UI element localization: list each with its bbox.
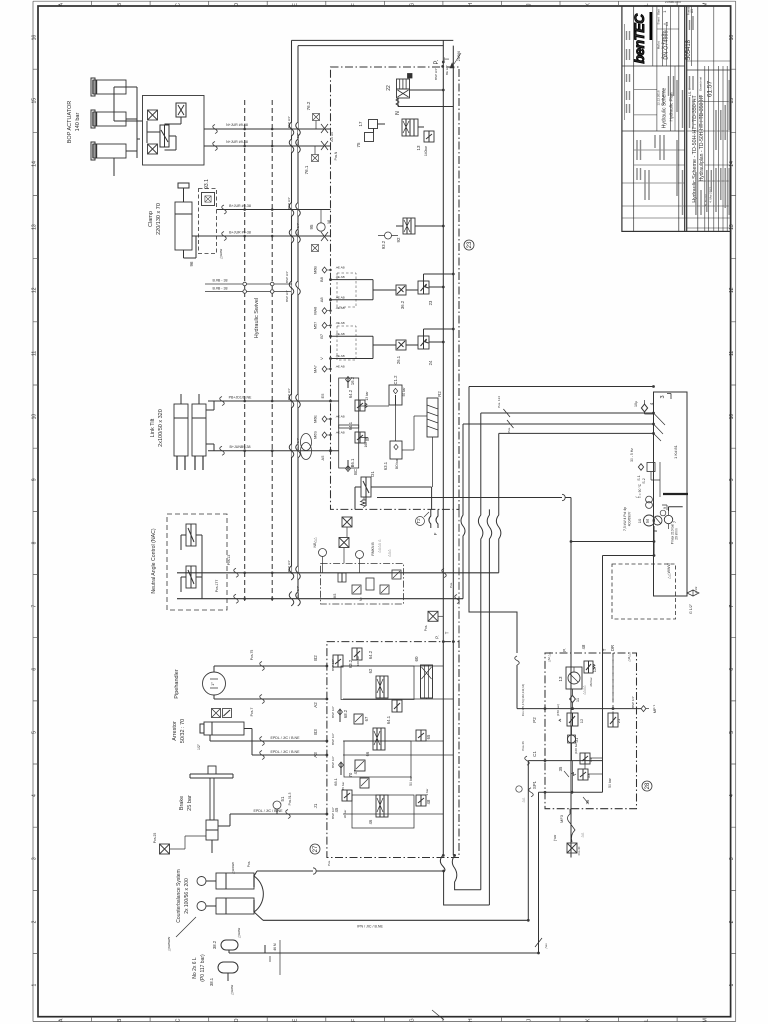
wire P2 line [517, 708, 641, 710]
P port dot and T arrow at box top [441, 65, 444, 68]
svg-text:76.2: 76.2 [306, 101, 311, 110]
svg-text:MF3: MF3 [559, 814, 564, 823]
clamp pilot valve 93.1 dashed box [199, 189, 217, 254]
svg-text:Hydraulic Swivel: Hydraulic Swivel [254, 298, 260, 338]
svg-text:16.2: 16.2 [350, 376, 355, 385]
svg-text:64.1: 64.1 [386, 715, 391, 724]
svg-text:50/32 : 70: 50/32 : 70 [180, 719, 186, 743]
svg-text:BSP 3/4": BSP 3/4" [287, 197, 291, 209]
svg-text:66: 66 [365, 751, 370, 756]
svg-text:△△: △△ [521, 797, 525, 802]
svg-text:D: D [234, 1018, 240, 1022]
accumulator 38.1 [218, 962, 238, 973]
svg-text:9: 9 [729, 478, 735, 481]
svg-text:BOP ACTUATOR: BOP ACTUATOR [67, 101, 73, 144]
wire main bus vertical P right [442, 40, 444, 855]
svg-text:A8: A8 [319, 297, 324, 303]
svg-text:B7: B7 [319, 333, 324, 339]
check stack R2 [427, 398, 438, 437]
valve 21 dashed branch [608, 713, 618, 727]
wire C1 line [528, 760, 602, 762]
svg-text:Pos.13: Pos.13 [227, 555, 231, 566]
counterbalance connection arc [254, 876, 263, 912]
pin 16.2 [347, 378, 349, 388]
svg-text:M6S: M6S [314, 431, 318, 439]
svg-text:61.57: 61.57 [707, 80, 714, 97]
dash-dot connector right edge [458, 509, 460, 641]
svg-text:8: 8 [32, 541, 38, 544]
svg-text:benTEC: benTEC [631, 13, 647, 64]
svg-text:25/666: 25/666 [457, 51, 461, 61]
svg-text:Pos.: Pos. [424, 625, 428, 631]
lower box row2 valves [338, 709, 343, 715]
svg-text:Pos.: Pos. [327, 860, 331, 866]
svg-text:M: M [645, 519, 650, 523]
svg-text:BSP 3/4": BSP 3/4" [296, 586, 300, 598]
svg-text:160 bar: 160 bar [364, 436, 368, 448]
svg-text:13: 13 [558, 676, 563, 682]
wire T return top horizontal [298, 45, 443, 47]
svg-text:65: 65 [426, 734, 431, 739]
svg-text:9: 9 [663, 507, 667, 509]
NAC cluster dash-dot box [321, 563, 404, 604]
svg-text:2M bar: 2M bar [589, 677, 593, 686]
electric motor 10 [644, 515, 655, 526]
svg-text:[A]: [A] [327, 220, 331, 224]
svg-text:A2: A2 [313, 702, 318, 708]
svg-text:63.2: 63.2 [348, 659, 353, 668]
svg-text:12: 12 [579, 718, 584, 723]
wire pipehandler line 2 [214, 695, 327, 699]
accumulator label pointer [176, 917, 196, 937]
svg-text:BSP 3/4": BSP 3/4" [434, 68, 438, 80]
valve 34 [580, 753, 590, 764]
NAC cluster internals [338, 573, 346, 582]
tank breather 4 [641, 404, 647, 412]
ruler ticks and grid numbers right edge [731, 69, 736, 953]
svg-text:3: 3 [729, 857, 735, 860]
svg-text:ZUNMFCOU: ZUNMFCOU [665, 0, 681, 4]
svg-text:30 - 5 Hz: 30 - 5 Hz [630, 448, 634, 462]
svg-text:Arrestor: Arrestor [172, 721, 178, 741]
svg-text:M3: M3 [333, 594, 337, 599]
svg-text:C: C [175, 3, 181, 7]
svg-text:DR: DR [610, 645, 615, 651]
svg-text:17: 17 [358, 121, 363, 127]
svg-text:△△: △△ [580, 832, 584, 837]
svg-text:H: H [468, 1018, 474, 1022]
svg-text:400/690V: 400/690V [628, 511, 632, 526]
svg-text:V: V [319, 357, 324, 360]
svg-text:36: 36 [585, 799, 590, 804]
svg-text:10: 10 [637, 518, 642, 523]
svg-text:BSP 1/2": BSP 1/2" [331, 756, 335, 768]
valve 92 directional [403, 218, 415, 234]
svg-text:ø 1/2: ø 1/2 [694, 586, 698, 593]
wire arrestor line 1 [210, 735, 327, 741]
NAC valve symbols inside [186, 524, 196, 546]
staircase return bundle wires [452, 46, 454, 856]
svg-text:50 bar: 50 bar [409, 775, 413, 785]
valve 25 relief [418, 281, 429, 294]
svg-text:C: C [175, 1018, 181, 1022]
svg-text:6: 6 [32, 668, 38, 671]
svg-text:1/2": 1/2" [197, 743, 201, 750]
relief 64.1 [355, 432, 365, 443]
valve 64.1 lower [392, 700, 402, 712]
svg-text:23: 23 [467, 241, 473, 248]
valve 22 pressure reducing [397, 79, 410, 89]
arrestor pilot squares [212, 709, 221, 718]
dashed electric box [612, 564, 676, 619]
svg-text:90 bar: 90 bar [402, 387, 406, 397]
svg-text:68.1: 68.1 [333, 777, 338, 786]
svg-text:Zechn.-Nr. Draw.-No.: Zechn.-Nr. Draw.-No. [661, 31, 665, 58]
svg-text:Link Tilt: Link Tilt [150, 418, 156, 437]
svg-text:7: 7 [729, 604, 735, 607]
cluster connector wires [365, 405, 396, 441]
svg-text:M: M [702, 1018, 708, 1022]
svg-text:96: 96 [189, 261, 194, 267]
NAC solenoid squares above [339, 538, 349, 548]
svg-text:MA8: MA8 [314, 307, 318, 315]
svg-text:48: 48 [426, 799, 431, 804]
svg-text:M57: M57 [314, 322, 318, 329]
wire P supply top horizontal [292, 39, 454, 41]
svg-text:75: 75 [356, 142, 361, 148]
svg-text:ƒww: ƒww [553, 834, 557, 841]
svg-text:7,5 kW 4 Pol 4p: 7,5 kW 4 Pol 4p [623, 507, 627, 531]
svg-text:1: 1 [729, 984, 735, 987]
hose connector SP feed [469, 387, 517, 654]
BOP actuator cylinder group [93, 80, 126, 94]
svg-text:T: T [445, 57, 451, 61]
wire main bus vertical T left [297, 46, 299, 599]
valves 34 33 connect lines [584, 764, 586, 769]
solenoid boxes 76.2 76.1 [313, 114, 320, 121]
wire tank return lines [463, 413, 654, 433]
svg-text:46: 46 [368, 819, 373, 824]
svg-text:22: 22 [386, 85, 392, 91]
svg-text:140 bar: 140 bar [75, 113, 81, 132]
svg-text:12: 12 [32, 287, 38, 293]
svg-text:T: T [602, 648, 607, 651]
svg-text:BSP 3/4": BSP 3/4" [285, 271, 289, 283]
svg-text:B2: B2 [313, 655, 318, 661]
wire counterbalance lower line [254, 912, 263, 920]
svg-text:12: 12 [592, 667, 597, 672]
svg-text:11: 11 [32, 351, 38, 356]
svg-text:E5: E5 [320, 393, 325, 399]
circled 27 [310, 844, 320, 854]
svg-text:Clamp: Clamp [148, 211, 154, 227]
wire NAC line 2 [177, 598, 463, 600]
svg-text:SP1: SP1 [532, 780, 537, 789]
svg-text:50 bar: 50 bar [608, 777, 612, 787]
svg-text:Pos. 124: Pos. 124 [497, 396, 501, 408]
wire NAC return riser 2 [461, 424, 465, 599]
svg-text:7: 7 [32, 604, 38, 607]
svg-text:C1.2: C1.2 [393, 375, 398, 385]
svg-text:B8: B8 [319, 276, 324, 282]
wire arrestor line 2 [252, 729, 327, 756]
svg-text:8: 8 [729, 541, 735, 544]
svg-text:No 2x 6 L: No 2x 6 L [192, 957, 198, 979]
svg-text:Pos.170,173,(166,142,14): Pos.170,173,(166,142,14) [521, 684, 525, 716]
svg-text:PB+JD1/D.NE: PB+JD1/D.NE [229, 396, 252, 400]
lower box row3 valves [342, 790, 352, 801]
svg-text:MA7: MA7 [314, 365, 318, 373]
svg-text:R2: R2 [437, 391, 442, 397]
ruler ticks and grid letters top edge [92, 1, 678, 6]
hydraulic swivel dashed boundary left [244, 100, 246, 602]
pump suction and discharge lines [653, 526, 655, 542]
svg-text:BC: BC [353, 469, 358, 475]
svg-text:ƒ: ƒ [635, 496, 639, 498]
svg-text:M6B: M6B [314, 266, 318, 274]
dashed vertical in pump box [612, 653, 614, 727]
pump 8 [653, 516, 662, 525]
svg-text:92: 92 [396, 237, 401, 243]
svg-text:.#E AB: .#E AB [335, 415, 344, 419]
svg-text:Gezeichnet: Gezeichnet [699, 77, 703, 91]
svg-text:B6.1: B6.1 [350, 458, 355, 467]
BOP valve internals [148, 110, 158, 120]
spare swivel lines [205, 284, 292, 292]
svg-text:67: 67 [364, 716, 369, 721]
svg-text:48: 48 [581, 644, 586, 649]
svg-text:B3: B3 [313, 729, 318, 735]
circled 23 [464, 240, 474, 250]
svg-text:Pos.: Pos. [449, 582, 453, 588]
svg-text:A: A [58, 2, 64, 6]
wire accumulator line [264, 945, 266, 953]
svg-text:140bar: 140bar [424, 145, 428, 156]
relief 48 [416, 795, 426, 806]
svg-text:Hydraulic Plan: Hydraulic Plan [669, 92, 674, 122]
svg-text:BSP 3/4": BSP 3/4" [296, 438, 300, 450]
svg-text:Pos.75: Pos.75 [250, 650, 254, 661]
svg-text:93.2: 93.2 [381, 240, 386, 249]
tank internal pipes [654, 413, 666, 441]
svg-text:IPN / JIC / B.NE: IPN / JIC / B.NE [357, 925, 383, 929]
valve 26.1 throttle-check [396, 340, 406, 350]
node P top [442, 61, 445, 64]
suction strainer S1 S2 [638, 464, 643, 471]
lower box row1 valves [333, 655, 343, 667]
hose breaks on staircase tops [442, 569, 447, 578]
svg-text:T: T [445, 631, 450, 634]
svg-text:Pos.N: Pos.N [334, 151, 338, 160]
svg-text:H: H [468, 3, 474, 7]
gauge 9 [660, 510, 666, 516]
svg-text:N+JUR #9-38: N+JUR #9-38 [226, 140, 248, 144]
hose coil loop on A5 line [301, 434, 312, 451]
svg-text:15: 15 [32, 98, 38, 104]
svg-text:Pos.177: Pos.177 [215, 580, 219, 593]
valve 46 directional [376, 795, 388, 817]
link tilt cylinders [174, 404, 188, 456]
svg-text:△△WWW: △△WWW [667, 563, 671, 579]
svg-text:2x 100/56 x 200: 2x 100/56 x 200 [184, 878, 190, 914]
wire bottom bundle horizontals [263, 919, 528, 921]
relief 13 [424, 131, 434, 142]
valve 24 relief [418, 336, 429, 349]
svg-text:EPDL / JIC / B.NE: EPDL / JIC / B.NE [253, 809, 283, 813]
svg-text:Blatt: Blatt [657, 9, 661, 15]
temp sensor 6 [646, 496, 653, 503]
relief 64.2 [355, 400, 365, 411]
svg-text:Pos.51-3: Pos.51-3 [288, 792, 292, 805]
wire link tilt line 1 [208, 400, 339, 402]
svg-text:Pos.7: Pos.7 [250, 708, 254, 717]
wire BOP B-line [204, 145, 331, 147]
svg-text:93.1: 93.1 [204, 179, 210, 189]
svg-text:D: D [234, 3, 240, 7]
ball valves on BOP lines [321, 124, 328, 150]
title block vertical dividers [624, 24, 626, 120]
svg-text:38.1: 38.1 [209, 977, 214, 986]
svg-text:Brake: Brake [179, 796, 185, 810]
svg-text:△△: △△ [313, 537, 317, 543]
svg-text:16: 16 [32, 35, 38, 41]
svg-text:M6E: M6E [314, 415, 318, 423]
svg-text:76.1: 76.1 [304, 165, 309, 174]
svg-text:4: 4 [729, 794, 735, 797]
svg-text:BSP 3/4": BSP 3/4" [287, 560, 291, 572]
svg-text:20 l/min: 20 l/min [675, 528, 679, 540]
svg-text:11: 11 [729, 351, 735, 356]
valve 70 [355, 760, 365, 771]
svg-text:(P0 117 bar): (P0 117 bar) [200, 954, 206, 982]
lower manifold dash-dot box [327, 642, 459, 858]
brake filter square [160, 844, 170, 854]
svg-text:4: 4 [32, 794, 38, 797]
svg-text:△www: △www [230, 984, 234, 995]
wire link tilt line 2 [208, 450, 339, 452]
svg-text:24: 24 [428, 360, 433, 365]
svg-text:M²: M² [359, 597, 363, 601]
svg-text:S.2: S.2 [642, 478, 646, 483]
svg-text:Pos.: Pos. [247, 861, 251, 867]
junction dots on rails [442, 89, 445, 92]
svg-text:△△△: △△△ [387, 549, 391, 557]
NAC dashed box [167, 514, 227, 610]
svg-text:RMKN B: RMKN B [371, 542, 375, 556]
tank [654, 392, 688, 596]
accumulator 38.2 [221, 940, 238, 950]
clamp cylinder [175, 202, 192, 250]
svg-text:12: 12 [729, 287, 735, 293]
svg-text:Sheet: Sheet [657, 17, 661, 25]
svg-text:.#E AB: .#E AB [335, 266, 344, 270]
svg-text:△M △△: △M △△ [547, 651, 551, 662]
svg-text:BSP 1/2": BSP 1/2" [331, 706, 335, 718]
svg-text:95: 95 [309, 224, 314, 230]
wire tank top line [469, 386, 654, 388]
svg-text:A4 34: A4 34 [330, 132, 334, 141]
svg-text:G 1/2": G 1/2" [689, 603, 693, 614]
valve C1.2 [389, 385, 402, 405]
svg-text:Neutral Angle Control (NAC): Neutral Angle Control (NAC) [151, 528, 157, 593]
svg-text:△www: △www [237, 927, 241, 938]
wire BOP A-line [204, 128, 331, 130]
svg-text:Pos.25: Pos.25 [153, 833, 157, 844]
wire SP1 C1 verticals to bottom [527, 761, 529, 921]
svg-text:(100 bar): (100 bar) [574, 742, 578, 754]
svg-text:Pos.46: Pos.46 [521, 741, 525, 751]
svg-text:10: 10 [32, 414, 38, 420]
wire B8 A8 to valve 36.2 [331, 280, 397, 300]
wire BOP box to cylinders [137, 121, 143, 139]
svg-text:F: F [433, 532, 438, 535]
svg-text:64.1: 64.1 [348, 421, 353, 430]
wire brake line [218, 814, 327, 826]
relief 68.1 [339, 762, 344, 768]
wire NAC return riser 1 [496, 433, 501, 572]
svg-text:35: 35 [558, 766, 563, 771]
relief 12 upper [584, 661, 593, 673]
svg-text:P.: P. [434, 635, 439, 638]
directional valve N [402, 119, 418, 136]
valve 63.1 [390, 441, 402, 459]
svg-text:B+JUR #9-38: B+JUR #9-38 [229, 231, 251, 235]
svg-text:38.2: 38.2 [212, 940, 217, 949]
svg-text:G: G [410, 1018, 416, 1022]
svg-text:G: G [410, 3, 416, 7]
pump unit dash-dot box [545, 653, 637, 809]
ruler ticks and grid letters bottom edge [92, 1017, 678, 1022]
counterbalance cylinders [216, 873, 254, 889]
svg-text:N+JUR #9-38: N+JUR #9-38 [226, 123, 248, 127]
svg-text:P2: P2 [532, 717, 537, 723]
valve 36.2 throttle-check [396, 285, 406, 295]
svg-text:BO bar: BO bar [395, 458, 399, 469]
hydraulic swivel dashed boundary right [271, 100, 273, 602]
test point diamond column [322, 267, 327, 273]
svg-text:2x100/50 x 320: 2x100/50 x 320 [158, 409, 164, 447]
valve 93.2 with circle [385, 232, 392, 239]
ruler ticks and grid numbers left edge [33, 69, 38, 953]
svg-text:△M△△: △M△△ [627, 652, 631, 662]
relief 65 [416, 730, 426, 741]
svg-text:(150 bar): (150 bar) [556, 704, 560, 716]
spring symbol below BC [361, 500, 366, 508]
svg-text:BSP 3/4": BSP 3/4" [296, 223, 300, 235]
wire NAC line 1 [177, 572, 499, 574]
svg-text:BSP 1/2": BSP 1/2" [331, 733, 335, 745]
BOP actuator rod bus [114, 87, 137, 158]
svg-text:60: 60 [414, 656, 419, 662]
wire pipehandler line 1 [214, 666, 327, 672]
valve 60 stacked [421, 665, 433, 698]
svg-text:B.#B - 38: B.#B - 38 [213, 279, 228, 283]
signature slash at bottom frame [432, 1010, 444, 1020]
pump 7 [664, 515, 672, 523]
svg-text:47: 47 [353, 769, 358, 774]
svg-text:J1: J1 [313, 803, 318, 808]
svg-text:2: 2 [729, 920, 735, 923]
svg-text:2 bar: 2 bar [425, 789, 429, 796]
svg-text:10μ: 10μ [634, 401, 638, 407]
wire clamp line 2 [192, 235, 331, 237]
svg-text:Pos.40: Pos.40 [577, 846, 581, 855]
svg-text:F: F [351, 1019, 357, 1022]
svg-text:BSP 1/4": BSP 1/4" [631, 696, 635, 708]
svg-text:S.1: S.1 [637, 475, 641, 480]
valve 31 circle [568, 735, 576, 743]
svg-text:Pipehandler: Pipehandler [174, 669, 180, 699]
